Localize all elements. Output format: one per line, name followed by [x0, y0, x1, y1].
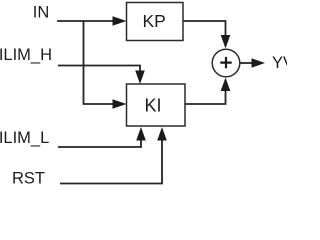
arrow into KI bottom from ILIM_L	[136, 127, 146, 141]
svg-text:RST: RST	[12, 169, 45, 187]
wire ILIM_L to KI bottom	[58, 140, 141, 147]
wire ILIM_H to KI top	[58, 66, 140, 73]
wire KI output to summer	[185, 90, 226, 104]
arrow into KI top	[135, 71, 145, 85]
wire IN branch down to KI left	[84, 21, 115, 104]
arrow into summer top	[221, 35, 231, 49]
wire summer output	[240, 62, 253, 64]
node YV	[272, 54, 294, 72]
wire KP output to summer	[183, 21, 226, 36]
summing junction	[212, 49, 240, 77]
svg-text:ILIM_L: ILIM_L	[0, 129, 49, 147]
svg-text:KI: KI	[145, 96, 162, 116]
node ILIM_H	[0, 46, 52, 64]
svg-text:IN: IN	[33, 4, 50, 22]
arrow into summer bottom	[221, 78, 231, 92]
node IN	[33, 4, 50, 22]
wire IN horizontal	[57, 20, 114, 22]
svg-text:KP: KP	[143, 11, 166, 31]
arrow to output YV	[252, 58, 266, 68]
block KI	[127, 84, 186, 126]
svg-text:YV: YV	[272, 54, 287, 72]
arrow into KI bottom from RST	[157, 127, 167, 141]
svg-text:ILIM_H: ILIM_H	[0, 46, 52, 64]
node ILIM_L	[0, 129, 49, 147]
arrow into KI left	[113, 99, 127, 109]
block KP	[127, 3, 184, 41]
wire RST to KI bottom	[60, 140, 162, 184]
arrow into KP left	[113, 16, 127, 26]
node RST	[12, 169, 45, 187]
